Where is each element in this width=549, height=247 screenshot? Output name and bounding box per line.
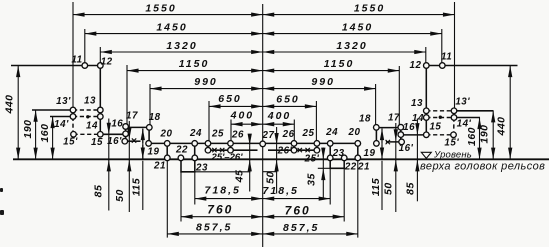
- svg-text:1320: 1320: [336, 40, 367, 52]
- svg-text:760: 760: [285, 204, 311, 218]
- svg-text:25'–26': 25'–26': [211, 152, 244, 163]
- svg-text:85: 85: [404, 182, 416, 195]
- svg-text:26': 26': [277, 146, 293, 157]
- svg-text:12: 12: [410, 60, 422, 71]
- svg-text:50: 50: [264, 171, 276, 184]
- svg-text:26: 26: [231, 130, 244, 141]
- svg-text:16': 16': [107, 136, 122, 147]
- svg-text:15': 15': [444, 137, 459, 148]
- svg-text:1450: 1450: [342, 21, 373, 33]
- svg-text:400: 400: [267, 110, 292, 122]
- svg-text:21: 21: [357, 162, 370, 173]
- svg-text:11: 11: [441, 52, 452, 63]
- svg-text:24: 24: [189, 128, 202, 139]
- svg-text:16: 16: [403, 122, 415, 133]
- svg-text:Уровень: Уровень: [433, 150, 472, 161]
- svg-text:190: 190: [22, 119, 34, 138]
- svg-text:13: 13: [84, 96, 96, 107]
- svg-text:верха головок рельсов: верха головок рельсов: [420, 161, 545, 173]
- svg-text:25: 25: [211, 129, 224, 140]
- svg-text:15: 15: [91, 137, 103, 148]
- svg-text:19: 19: [148, 147, 160, 158]
- svg-text:650: 650: [276, 94, 300, 106]
- svg-text:27: 27: [262, 130, 275, 141]
- svg-text:35: 35: [306, 173, 318, 186]
- svg-text:25': 25': [304, 153, 320, 164]
- svg-text:18: 18: [149, 112, 161, 123]
- svg-text:85: 85: [93, 185, 105, 198]
- svg-text:15': 15': [63, 136, 78, 147]
- svg-text:50: 50: [114, 189, 126, 202]
- svg-text:23: 23: [332, 148, 345, 159]
- svg-text:17: 17: [126, 111, 138, 122]
- svg-text:13: 13: [411, 98, 423, 109]
- svg-text:16: 16: [111, 118, 123, 129]
- svg-text:115: 115: [370, 178, 382, 196]
- svg-text:22: 22: [344, 162, 357, 173]
- svg-text:15: 15: [429, 121, 441, 132]
- svg-text:1550: 1550: [145, 2, 176, 14]
- svg-text:1320: 1320: [166, 40, 197, 52]
- svg-text:1450: 1450: [156, 21, 187, 33]
- svg-text:23: 23: [195, 163, 208, 174]
- svg-text:22: 22: [175, 145, 188, 156]
- svg-text:11: 11: [71, 55, 82, 66]
- svg-text:1150: 1150: [179, 58, 210, 70]
- svg-text:990: 990: [311, 76, 335, 88]
- svg-text:650: 650: [218, 93, 242, 105]
- svg-text:12: 12: [101, 56, 113, 67]
- svg-text:21: 21: [153, 161, 166, 172]
- svg-text:160: 160: [39, 123, 51, 142]
- svg-text:50: 50: [382, 182, 394, 195]
- svg-text:24: 24: [325, 127, 338, 138]
- svg-text:18: 18: [359, 114, 371, 125]
- svg-text:26: 26: [282, 129, 295, 140]
- svg-text:20: 20: [160, 129, 173, 140]
- svg-text:440: 440: [495, 116, 507, 136]
- svg-text:16': 16': [399, 143, 414, 154]
- svg-text:990: 990: [194, 76, 218, 88]
- svg-text:1550: 1550: [354, 2, 385, 14]
- svg-text:400: 400: [230, 110, 255, 122]
- svg-text:13': 13': [56, 96, 71, 107]
- svg-text:14': 14': [457, 119, 472, 130]
- svg-text:718,5: 718,5: [263, 185, 299, 197]
- svg-text:718,5: 718,5: [205, 184, 241, 196]
- svg-text:14': 14': [54, 119, 69, 130]
- svg-text:190: 190: [478, 124, 490, 143]
- svg-text:×: ×: [131, 135, 139, 147]
- svg-text:25: 25: [302, 128, 315, 139]
- svg-text:857,5: 857,5: [283, 222, 319, 234]
- svg-text:17: 17: [388, 112, 400, 123]
- svg-text:×: ×: [385, 137, 393, 149]
- svg-text:19: 19: [364, 148, 376, 159]
- svg-text:857,5: 857,5: [196, 222, 232, 234]
- svg-text:14: 14: [86, 120, 98, 131]
- svg-text:13': 13': [455, 96, 470, 107]
- svg-text:760: 760: [207, 203, 233, 217]
- svg-text:115: 115: [130, 178, 142, 196]
- svg-text:440: 440: [3, 94, 15, 114]
- svg-text:160: 160: [466, 127, 478, 146]
- svg-text:20: 20: [348, 127, 361, 138]
- svg-text:1150: 1150: [324, 58, 355, 70]
